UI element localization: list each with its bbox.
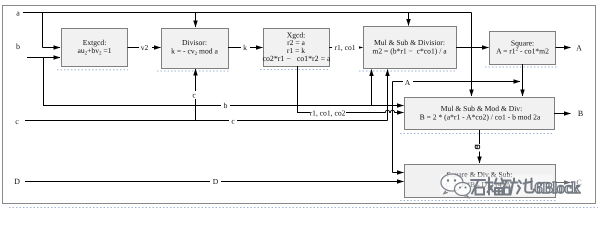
svg-text:A: A xyxy=(405,78,411,87)
svg-text:a: a xyxy=(16,9,20,18)
svg-text:r1, co1, co2: r1, co1, co2 xyxy=(310,109,346,118)
svg-text:6Block: 6Block xyxy=(535,180,581,197)
svg-text:r1, co1: r1, co1 xyxy=(334,43,355,52)
svg-text:k: k xyxy=(243,43,247,52)
svg-text:B = 2 * (a*r1 - A*co2) / co1 -: B = 2 * (a*r1 - A*co2) / co1 - b mod 2a xyxy=(420,113,541,122)
svg-text:au2+bv2 =1: au2+bv2 =1 xyxy=(77,46,111,57)
svg-text:B: B xyxy=(578,109,583,118)
svg-text:A = r12 - co1*m2: A = r12 - co1*m2 xyxy=(496,47,549,56)
svg-text:v2: v2 xyxy=(141,43,149,52)
svg-text:b: b xyxy=(16,42,20,51)
svg-text:c: c xyxy=(15,117,19,126)
svg-text:co2*r1 − co1*r2 = a: co2*r1 − co1*r2 = a xyxy=(262,54,331,63)
svg-text:A: A xyxy=(576,44,582,53)
svg-text:b: b xyxy=(224,101,228,110)
svg-text:D: D xyxy=(213,177,219,186)
svg-text:D: D xyxy=(14,177,20,186)
svg-text:m2 = (b*r1 − c*co1) / a: m2 = (b*r1 − c*co1) / a xyxy=(372,46,447,55)
